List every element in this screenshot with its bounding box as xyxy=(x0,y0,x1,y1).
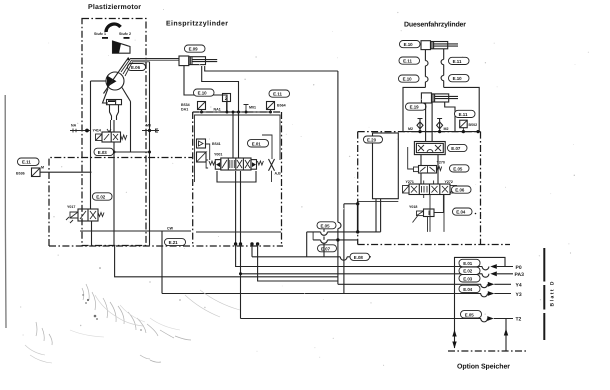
valve Y018 xyxy=(424,209,435,217)
node M01 xyxy=(244,105,249,113)
label capsule E.06 xyxy=(128,64,146,71)
wire main pressure down xyxy=(238,112,240,158)
svg-text:PA3: PA3 xyxy=(515,272,525,278)
valve Y017 arrows xyxy=(80,211,96,219)
wire row Y3 xyxy=(162,293,481,295)
label capsule E.02 xyxy=(459,267,480,274)
svg-text:E.06: E.06 xyxy=(131,65,141,70)
pump stroke piston link left xyxy=(103,89,109,104)
wire mid vertical xyxy=(232,112,234,158)
svg-text:M2: M2 xyxy=(408,127,413,131)
wire row Y4 xyxy=(338,283,481,285)
wire D2 port left xyxy=(425,103,427,142)
wire x252 x257 drops xyxy=(251,244,253,257)
tick under Stufe 2 xyxy=(124,37,130,39)
svg-text:Y001: Y001 xyxy=(214,153,222,157)
inner frame xyxy=(195,115,281,182)
cylinder Z1 rod xyxy=(192,60,217,62)
svg-text:Einspritzzylinder: Einspritzzylinder xyxy=(166,20,228,28)
arrow P0 xyxy=(490,264,497,269)
check valve M2 right xyxy=(437,119,442,132)
svg-text:M0: M0 xyxy=(146,124,151,128)
svg-text:E.11: E.11 xyxy=(459,112,468,117)
svg-text:Y4: Y4 xyxy=(516,283,522,289)
wire row PA3 xyxy=(241,244,483,319)
wire y240 xyxy=(313,239,358,241)
cylinder D2 barrel xyxy=(432,94,449,102)
wire E01 frame xyxy=(262,135,272,159)
wire parallel pilot xyxy=(110,120,112,132)
selector arc xyxy=(106,24,121,32)
svg-text:E.08: E.08 xyxy=(354,255,364,260)
svg-text:E.02: E.02 xyxy=(463,269,473,274)
wire stub x315 xyxy=(312,232,314,240)
label capsule E.09 xyxy=(185,45,206,52)
wire row E03 xyxy=(115,246,338,277)
scan smudges bottom left xyxy=(36,284,191,362)
scan edge artifact left xyxy=(4,95,7,328)
svg-text:P0: P0 xyxy=(516,265,522,271)
pilot valve B541 square xyxy=(197,139,206,148)
svg-text:M: M xyxy=(41,166,44,170)
cylinder D1 cap xyxy=(421,41,431,50)
valve Y001 body xyxy=(221,158,251,170)
node NA symbol xyxy=(70,130,91,132)
wires valve block down xyxy=(430,195,444,232)
label capsule E.11 above B502 xyxy=(455,110,476,117)
wire Y018 out xyxy=(434,195,443,213)
svg-text:M01: M01 xyxy=(249,106,256,110)
pilot dashes xyxy=(66,217,73,223)
label capsule E.10 xyxy=(194,89,215,96)
hydraulic motor M1 xyxy=(106,72,124,90)
wire from E.06 column xyxy=(130,102,132,153)
wire edge overlay xyxy=(357,204,359,232)
wires inner box down xyxy=(376,199,381,232)
dash-dot enclosure Plastiziermotor xyxy=(82,19,146,246)
valve Y017 spring xyxy=(98,213,104,217)
inner solid box duesen xyxy=(373,133,399,199)
valve Y271 Y272 xyxy=(409,184,450,195)
arrow T2 xyxy=(487,316,494,321)
wire D2 port mid xyxy=(431,102,433,142)
svg-text:2: 2 xyxy=(225,96,228,102)
label capsule E.05 mid xyxy=(317,222,336,229)
svg-text:A,B: A,B xyxy=(275,172,282,176)
cylinder D1 rod xyxy=(434,44,458,46)
wire header y112 xyxy=(193,111,282,113)
valve Y414 body xyxy=(102,132,121,142)
connector frame xyxy=(455,257,506,348)
wire B536 to box xyxy=(40,171,92,173)
solenoid diag xyxy=(96,134,103,141)
svg-text:Y414: Y414 xyxy=(93,129,101,133)
svg-text:E.10: E.10 xyxy=(403,77,413,82)
label capsule E.07 xyxy=(448,144,468,151)
svg-text:E.04: E.04 xyxy=(463,287,473,292)
svg-text:E.01: E.01 xyxy=(252,141,262,146)
hose jump PA3 xyxy=(482,274,489,277)
svg-text:B564: B564 xyxy=(277,104,286,108)
svg-text:E.03: E.03 xyxy=(463,276,473,281)
svg-text:E.07: E.07 xyxy=(451,146,461,151)
wire drain bar xyxy=(196,231,281,233)
svg-text:Stufe 1: Stufe 1 xyxy=(94,32,106,36)
label capsule E.05 xyxy=(461,311,482,318)
label capsule E.04 xyxy=(453,208,473,215)
svg-text:E.10: E.10 xyxy=(198,91,208,96)
svg-text:Option Speicher: Option Speicher xyxy=(457,363,510,371)
Blatt D bar xyxy=(543,248,545,340)
svg-text:E.11: E.11 xyxy=(403,59,412,64)
svg-text:NA1: NA1 xyxy=(214,108,221,112)
wire collector y152 xyxy=(114,151,150,153)
cylinder Z1 piston xyxy=(190,57,192,65)
sensor B502 xyxy=(460,120,468,128)
svg-text:E.11: E.11 xyxy=(22,160,31,165)
cylinder D2 rod xyxy=(435,96,458,98)
label capsule E.03 xyxy=(94,148,114,155)
cylinder D2 piston xyxy=(433,94,435,102)
wire row T2 xyxy=(241,318,482,320)
wire cyl rod-side out xyxy=(205,66,338,71)
wire Y017 drain xyxy=(91,221,93,246)
stroke piston head xyxy=(107,100,122,105)
wire bundle motor to cylinder line1 xyxy=(121,59,179,73)
svg-text:Duesenfahrzylinder: Duesenfahrzylinder xyxy=(404,21,466,29)
junction xyxy=(113,151,116,154)
wire pilot links xyxy=(205,144,210,160)
sensor B536 square xyxy=(32,168,41,177)
svg-text:E.04: E.04 xyxy=(456,210,466,215)
tick under Stufe 1 xyxy=(102,37,108,39)
svg-text:Y3: Y3 xyxy=(516,292,522,298)
svg-text:E.11: E.11 xyxy=(453,59,462,64)
label capsule E.21 xyxy=(165,239,186,246)
arrows on connector left edge xyxy=(452,330,456,337)
pilot valve square 2 xyxy=(197,152,207,162)
sensor stub B564 xyxy=(270,110,272,113)
wire motor drop to Y017 xyxy=(90,81,92,209)
stroke cylinder body xyxy=(110,105,119,120)
gauge 2 square xyxy=(223,94,231,102)
label capsule E.19 xyxy=(406,103,427,110)
svg-text:Plastiziermotor: Plastiziermotor xyxy=(88,3,141,11)
wire gauge stub xyxy=(226,102,228,113)
svg-text:E.21: E.21 xyxy=(169,240,179,245)
svg-text:E.01: E.01 xyxy=(463,261,473,266)
valve Y270 xyxy=(419,166,437,174)
wedge filled part xyxy=(113,41,122,53)
label capsule E.11 left xyxy=(399,57,420,64)
svg-text:CW: CW xyxy=(167,227,174,231)
label capsule E.03 xyxy=(459,275,480,282)
valve Y414 arrows xyxy=(104,134,118,140)
hose jump T2 xyxy=(481,319,488,322)
svg-text:Y018: Y018 xyxy=(409,205,417,209)
wire motor inlet left xyxy=(91,80,107,82)
valve Y017 solenoid xyxy=(70,212,78,218)
shuttle valve xyxy=(414,142,445,155)
svg-text:Y271: Y271 xyxy=(406,180,414,184)
junction dots on duesen header xyxy=(418,130,421,133)
wire T2 drop xyxy=(505,319,507,352)
cylinder Z1 cap xyxy=(179,56,189,66)
svg-text:NA: NA xyxy=(71,124,77,128)
svg-text:B536: B536 xyxy=(16,172,25,176)
valve Y017 divider xyxy=(87,209,89,221)
label capsule E.20 xyxy=(364,136,383,143)
valve Y001 dividers xyxy=(228,158,243,170)
svg-text:B541: B541 xyxy=(212,142,221,146)
cylinder Z1 barrel xyxy=(189,57,206,65)
cylinder D2 cap xyxy=(421,93,431,103)
label capsule E.10 right2 xyxy=(449,75,470,82)
svg-text:E.03: E.03 xyxy=(98,150,108,155)
svg-text:E.10: E.10 xyxy=(453,76,463,81)
label capsule E.08 mid xyxy=(350,253,370,260)
valve Y001 end right xyxy=(251,160,257,170)
wire throttle to duesen xyxy=(271,171,273,182)
wire D1 port right with hoses xyxy=(443,49,445,60)
hose jump P0 xyxy=(482,267,489,270)
wire D1 port left with hoses xyxy=(424,50,426,61)
valve Y414 spring xyxy=(121,135,127,140)
dash-dot bottom shared edge xyxy=(49,245,283,247)
dash-dot enclosure pump station xyxy=(49,158,193,247)
wire Y270 pilot xyxy=(408,147,414,169)
svg-text:B502: B502 xyxy=(469,123,478,127)
motor variable arrow xyxy=(104,58,129,94)
wire CW return xyxy=(80,230,191,232)
svg-text:E.20: E.20 xyxy=(367,138,377,143)
label capsule E.01 xyxy=(248,140,269,147)
port tick A xyxy=(107,129,111,132)
displacement wedge xyxy=(113,41,131,53)
svg-text:T2: T2 xyxy=(516,316,522,322)
svg-text:E.05: E.05 xyxy=(465,312,475,317)
wires shuttle to Y270 xyxy=(421,155,438,184)
cylinder D1 barrel xyxy=(431,42,448,49)
frame upper duesen xyxy=(403,87,479,131)
svg-text:Y017: Y017 xyxy=(67,205,75,209)
svg-text:E.06: E.06 xyxy=(455,188,465,193)
wire bundle line3 xyxy=(125,62,150,76)
label capsule E.04 xyxy=(459,285,480,292)
sensor B564 square xyxy=(267,102,275,110)
arrow tip xyxy=(127,58,130,61)
hose jump Y4 xyxy=(481,284,488,287)
wire cyl port A down xyxy=(184,66,227,112)
svg-text:E.09: E.09 xyxy=(189,47,199,52)
arrow PA3 xyxy=(490,271,497,276)
wire cyl port B down xyxy=(202,66,239,112)
wire riser x162 xyxy=(161,231,163,294)
wire piston to valve Y414 xyxy=(113,120,115,132)
label capsule E.10 left2 xyxy=(399,75,420,82)
dash-dot enclosure Duesenfahr xyxy=(358,131,481,133)
svg-text:E.10: E.10 xyxy=(404,42,414,47)
sensor B534 square xyxy=(198,102,206,110)
dot right of E.04 xyxy=(475,213,477,215)
svg-text:E.07: E.07 xyxy=(321,246,331,251)
svg-text:DA1: DA1 xyxy=(181,108,188,112)
wire D2 port right xyxy=(445,102,455,132)
wire y257 xyxy=(252,256,371,258)
svg-text:Stufe 2: Stufe 2 xyxy=(119,32,131,36)
junction xyxy=(148,151,151,154)
junction dots bottom xyxy=(234,242,237,245)
cylinder D1 piston xyxy=(432,42,434,49)
svg-text:B534: B534 xyxy=(181,103,190,107)
wire valve Y414 drain xyxy=(113,142,115,246)
label capsule E.11 right xyxy=(449,57,470,64)
label capsule E.11 xyxy=(269,90,290,97)
throttle X xyxy=(269,159,275,171)
label capsule E.07 mid xyxy=(318,245,337,252)
svg-text:E.05: E.05 xyxy=(321,223,331,228)
arrow Y4 xyxy=(488,282,495,287)
wire valve outlet A xyxy=(235,171,237,245)
dash-dot option speicher xyxy=(448,350,528,352)
wire under inner box xyxy=(358,200,399,202)
label capsule E.02 xyxy=(93,193,113,200)
hose jump on y232 xyxy=(321,232,328,235)
wire drop x338 xyxy=(337,71,339,222)
wire bundle line2 xyxy=(123,60,179,74)
wire drop x343 xyxy=(343,204,345,294)
label capsule E.01 xyxy=(459,259,480,266)
arrow up on T2 drop xyxy=(504,329,508,336)
sensor stub B534 xyxy=(201,110,203,113)
valve Y001 spring left xyxy=(209,161,215,165)
svg-text:Y272: Y272 xyxy=(445,180,453,184)
valve Y001 end left xyxy=(215,160,221,170)
wire drop from bundle xyxy=(149,62,151,246)
motor direction triangle xyxy=(107,76,117,88)
wire main return y232 xyxy=(307,231,381,233)
wire valve outlet B xyxy=(240,171,242,245)
valve Y414 solenoid xyxy=(96,134,103,141)
hose jump Y3 xyxy=(481,294,488,297)
wire x306 drop xyxy=(306,232,308,257)
valve Y001 spring right xyxy=(257,161,263,165)
wire row P0 xyxy=(236,244,483,267)
check valve M2 left xyxy=(418,119,423,132)
svg-text:E.11: E.11 xyxy=(273,92,282,97)
label capsule E.10 top xyxy=(400,41,421,48)
dash-dot enclosure Einspritz xyxy=(193,112,282,246)
valve Y414 divider xyxy=(110,132,112,142)
valve Y017 body xyxy=(78,209,98,221)
svg-text:E.05: E.05 xyxy=(453,166,463,171)
pump stroke piston link right xyxy=(122,88,131,102)
wire edge port xyxy=(344,203,358,205)
label capsule E.05 xyxy=(450,165,470,172)
svg-text:E.19: E.19 xyxy=(410,105,420,110)
arrow Y3 xyxy=(488,291,495,296)
wire feedback loop under valve xyxy=(217,171,256,182)
svg-text:M2: M2 xyxy=(444,127,449,131)
wire x323 tail xyxy=(323,229,325,257)
node M0 symbol xyxy=(142,130,159,132)
junction dots on header xyxy=(200,111,203,114)
label capsule E.06 xyxy=(452,186,472,193)
stroke piston head divider xyxy=(115,100,117,105)
port ticks Y271 xyxy=(424,181,434,199)
label capsule E.11 left xyxy=(18,158,40,165)
valve Y001 arrows xyxy=(222,160,250,168)
